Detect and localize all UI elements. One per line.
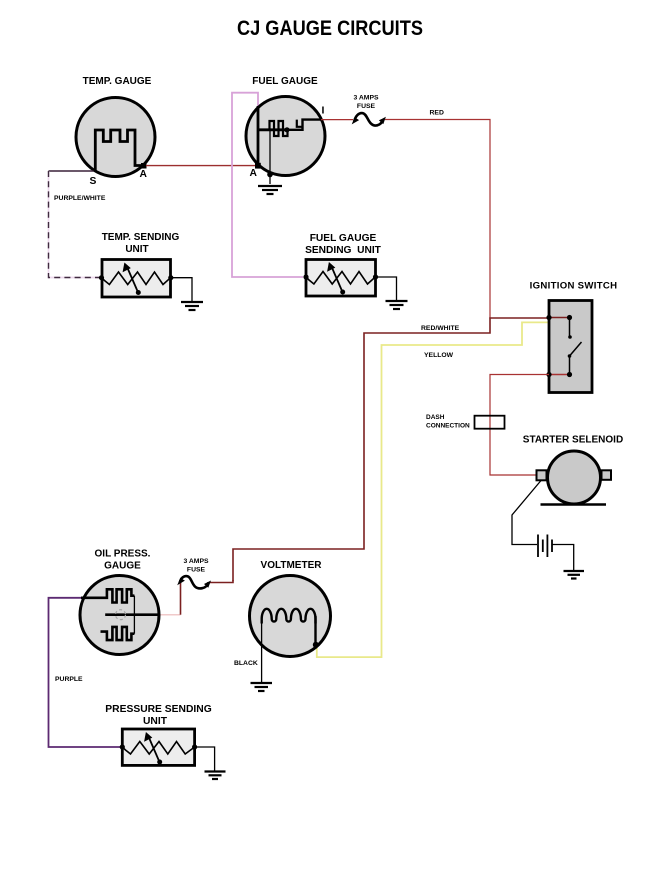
svg-text:GAUGE: GAUGE [104,561,141,572]
top terminal wire IGNITION SWITCH [549,317,570,319]
left terminal STARTER SELENOID [537,470,547,480]
junction dot left terminal TEMP SENDING UNIT [99,275,104,280]
wire to ground from TEMP SENDING UNIT [171,278,192,301]
svg-text:DASH: DASH [426,414,445,421]
wire black solenoid to battery [512,481,541,545]
ground below PRESSURE SENDING UNIT [205,772,226,780]
wiper arrow TEMP SENDING UNIT [123,263,141,296]
body STARTER SELENOID [548,451,601,504]
middle line OIL PRESS GAUGE [105,613,159,616]
wiper arrow PRESSURE SENDING UNIT [144,732,162,765]
gauge body OIL PRESS GAUGE [80,576,159,655]
svg-text:3 AMPS: 3 AMPS [183,558,209,565]
wire dark red fuse2 right lead [209,580,233,583]
bottom terminal wire IGNITION SWITCH [549,374,570,376]
internal wire vertical FUEL GAUGE [257,106,260,165]
wire to I terminal FUEL GAUGE [287,120,321,130]
junction dot top contact IGNITION SWITCH [567,315,572,320]
svg-text:YELLOW: YELLOW [424,352,454,359]
svg-text:UNIT: UNIT [125,244,148,255]
wiper arrow FUEL SENDING UNIT [327,262,345,295]
top heater element OIL PRESS GAUGE [81,589,134,602]
junction dot bottom contact IGNITION SWITCH [567,372,572,377]
right link line OIL PRESS GAUGE [133,596,135,634]
svg-text:FUSE: FUSE [357,103,376,110]
ground below TEMP SENDING UNIT [181,302,203,310]
fuse F2 3 AMPS [177,576,211,588]
fuse F1 3 AMPS [352,113,386,125]
gauge body FUEL GAUGE [246,97,325,176]
body PRESSURE SENDING UNIT [122,729,194,765]
wire battery to ground [552,545,574,571]
right terminal STARTER SELENOID [602,470,612,480]
wire purple/white dashed pale underlay [49,171,102,278]
coil 1 FUEL GAUGE [270,121,288,136]
wire purple/white dashed vertical [49,171,102,278]
right internal wire VOLTMETER [314,616,316,645]
dot at case bottom FUEL GAUGE [267,172,273,178]
svg-text:RED/WHITE: RED/WHITE [421,325,460,332]
junction dot right terminal PRESSURE SENDING UNIT [192,744,197,749]
resistor zigzag TEMP SENDING UNIT [102,272,171,285]
resistor zigzag FUEL SENDING UNIT [306,272,375,285]
wire top contact stem IGNITION SWITCH [569,318,571,338]
svg-text:BLACK: BLACK [234,660,258,667]
wire bottom contact stem IGNITION SWITCH [569,356,571,375]
wire red FUEL I to fuse [321,119,353,121]
wire yellow [317,322,548,657]
wire pale pink stub OIL PRESS GAUGE to fuse [158,614,181,616]
battery B1 [538,535,552,558]
svg-text:A: A [140,169,148,180]
internal ground wire FUEL GAUGE [269,130,271,184]
dashed pivot circle OIL PRESS GAUGE [116,610,126,620]
svg-text:FUSE: FUSE [187,567,206,574]
ground below battery [564,571,585,579]
svg-text:PURPLE/WHITE: PURPLE/WHITE [54,195,106,202]
svg-text:UNIT: UNIT [143,716,168,727]
junction dot left terminal PRESSURE SENDING UNIT [120,744,125,749]
junction dot top-left terminal IGNITION SWITCH [546,315,551,320]
svg-text:CJ GAUGE CIRCUITS: CJ GAUGE CIRCUITS [237,16,423,40]
junction dot right terminal FUEL SENDING UNIT [373,274,378,279]
terminal dot VOLTMETER [313,642,319,648]
resistor zigzag PRESSURE SENDING UNIT [122,742,194,755]
body TEMP SENDING UNIT [102,260,171,298]
svg-text:S: S [90,176,97,187]
svg-text:STARTER SELENOID: STARTER SELENOID [523,435,623,446]
left internal wire VOLTMETER [261,621,263,682]
terminal A dot FUEL GAUGE [255,163,261,169]
connector DASH CONNECTION [475,416,505,429]
wire red TEMP A to FUEL A [146,165,256,167]
wire red ignition to starter solenoid [490,375,549,476]
gauge body TEMP GAUGE [76,98,155,177]
svg-text:A: A [250,168,258,179]
ground below FUEL SENDING UNIT [386,301,408,309]
junction dot bottom-left terminal IGNITION SWITCH [546,372,551,377]
svg-text:FUEL GAUGE: FUEL GAUGE [252,76,318,87]
wire dark red fuse2 left lead [180,582,182,615]
body FUEL SENDING UNIT [306,260,376,297]
svg-text:OIL PRESS.: OIL PRESS. [95,549,151,560]
junction dot left terminal FUEL SENDING UNIT [303,274,308,279]
wire to ground from FUEL SENDING UNIT [376,277,397,300]
junction dot right terminal TEMP SENDING UNIT [168,275,173,280]
lever pivot dot IGNITION SWITCH [568,354,572,358]
bottom heater element OIL PRESS GAUGE [101,627,135,640]
wire red fuse to ignition switch column [385,120,490,319]
wire to ground from PRESSURE SENDING UNIT [195,747,215,771]
svg-text:PURPLE: PURPLE [55,676,83,683]
svg-text:VOLTMETER: VOLTMETER [261,560,323,571]
internal wire horizontal FUEL GAUGE [258,128,288,131]
svg-text:3 AMPS: 3 AMPS [353,95,379,102]
svg-text:TEMP. GAUGE: TEMP. GAUGE [83,76,152,87]
svg-text:FUEL GAUGE: FUEL GAUGE [310,233,377,244]
terminal A dot of TEMP GAUGE [141,163,147,169]
svg-text:PRESSURE SENDING: PRESSURE SENDING [105,704,211,715]
svg-text:I: I [322,105,325,117]
svg-text:TEMP. SENDING: TEMP. SENDING [102,232,180,243]
wire purple/white from S of TEMP GAUGE [49,170,94,172]
body IGNITION SWITCH [549,301,592,393]
svg-text:RED: RED [430,110,444,117]
base line STARTER SELENOID [541,503,607,505]
ground below FUEL GAUGE [258,186,282,194]
gauge body VOLTMETER [250,576,331,657]
fixed contact dot IGNITION SWITCH [568,335,572,339]
svg-text:SENDING UNIT: SENDING UNIT [305,245,382,256]
svg-text:IGNITION SWITCH: IGNITION SWITCH [530,281,618,292]
coil 2 FUEL GAUGE [297,120,303,127]
svg-text:CONNECTION: CONNECTION [426,423,470,430]
switch lever IGNITION SWITCH [570,342,582,356]
ground below VOLTMETER [251,683,273,691]
junction dot FUEL GAUGE [284,127,289,132]
wire pink to FUEL GAUGE and FUEL SENDING UNIT [232,93,303,277]
heater element inside TEMP GAUGE [95,130,143,171]
wire purple to OIL PRESS GAUGE [49,598,123,747]
coil VOLTMETER [262,609,316,624]
wire red/white [233,318,549,581]
